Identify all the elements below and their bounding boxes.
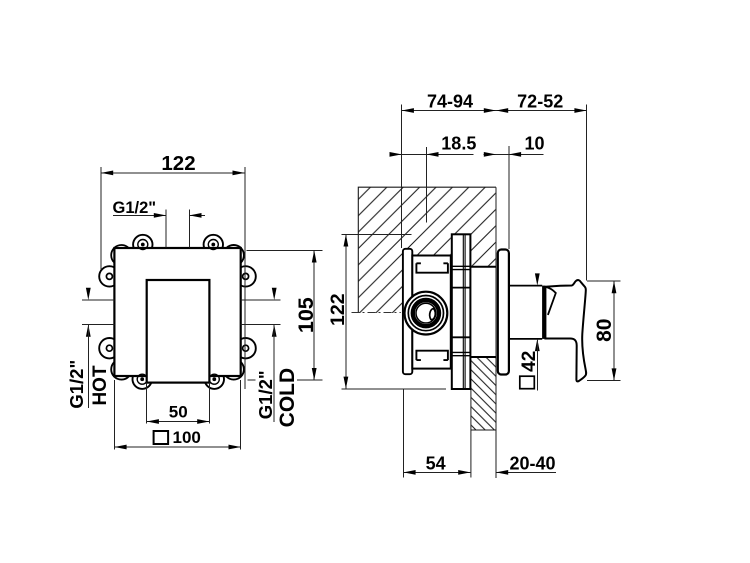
dimension 122 (top of front view) (101, 152, 245, 389)
wall opening top edge (470, 266, 496, 268)
svg-text:18.5: 18.5 (441, 133, 476, 153)
dimension 54 (403, 389, 470, 478)
label G1/2 HOT (left port) (66, 288, 111, 409)
svg-text:42: 42 (519, 351, 540, 372)
handle stem lines plate to collar (509, 285, 542, 287)
svg-text:HOT: HOT (90, 365, 111, 406)
screw top-left ring and dot (138, 240, 148, 250)
cartridge thick ring (413, 300, 439, 326)
svg-text:105: 105 (294, 297, 318, 333)
svg-text:50: 50 (169, 403, 188, 422)
horizontal centerline (dash-dot) (352, 312, 401, 314)
svg-text:72-52: 72-52 (517, 92, 563, 112)
cartridge crescent detail (430, 309, 436, 320)
cartridge stem lines across bridge (452, 287, 471, 289)
svg-text:80: 80 (593, 319, 616, 342)
svg-text:G1/2": G1/2" (66, 360, 87, 409)
corner lug bottom-left (111, 359, 131, 379)
handle lever body (545, 280, 586, 381)
side lug left-upper (99, 266, 119, 286)
dimension 80 (handle height) (587, 281, 620, 381)
finished wall face line (495, 187, 497, 478)
handle hub cone lines (546, 287, 556, 315)
screw lug bottom-right outer (205, 370, 224, 389)
svg-text:74-94: 74-94 (427, 92, 473, 112)
bridge inner lines (462, 234, 464, 389)
wall plate front face (114, 248, 240, 376)
svg-text:10: 10 (525, 134, 545, 154)
left port extension ticks (82, 300, 280, 325)
cartridge outer circle (405, 292, 448, 335)
dimension 50 (recess width) (147, 383, 210, 424)
screw lug top-left outer (133, 235, 152, 254)
top clamp bracket (416, 263, 448, 272)
handle collar bar (542, 286, 545, 339)
svg-text:20-40: 20-40 (509, 454, 555, 474)
dimension 74-94 (402, 92, 587, 281)
wall hatch upper block (358, 187, 496, 313)
corner lug top-left (111, 245, 131, 265)
wall opening bottom edge (470, 356, 496, 358)
valve body left rail (403, 249, 412, 374)
dimension 105 (right of front view) (247, 250, 323, 380)
side lug left-lower (99, 338, 119, 358)
side lug right-upper (235, 266, 255, 286)
mounting bridge plate (452, 234, 471, 389)
dimension 72-52 (496, 92, 587, 113)
vertical centerline ticks above/below cartridge (425, 258, 427, 284)
bridge division lines (452, 266, 471, 355)
side lug right-lower (235, 338, 255, 358)
dimension square-100 (plate size) (114, 380, 240, 450)
svg-text:122: 122 (327, 293, 349, 326)
cover escutcheon plate (section) (498, 250, 509, 375)
corner lug top-right (224, 245, 244, 265)
wall lower broken edge left (470, 389, 472, 478)
screw lug bottom-left outer (133, 370, 152, 389)
cartridge inner circle (416, 303, 436, 323)
bottom clamp bracket (416, 351, 448, 360)
svg-text:G1/2": G1/2" (113, 199, 157, 217)
label G1/2 COLD (right port) (255, 288, 299, 428)
wall hatch lower block (471, 357, 496, 430)
screw bottom-left ring and dot (137, 374, 147, 384)
svg-text:122: 122 (161, 152, 195, 175)
screw lug top-right outer (204, 235, 223, 254)
dimension 18.5 (390, 133, 477, 222)
recess opening rectangle (147, 280, 210, 383)
wall upper outline (358, 187, 496, 313)
wall lower hatch bottom edge (471, 429, 496, 431)
svg-text:54: 54 (426, 453, 446, 473)
svg-text:100: 100 (173, 428, 201, 447)
cartridge ring 2 (408, 296, 443, 331)
dimension 20-40 (496, 454, 556, 475)
svg-text:G1/2": G1/2" (255, 370, 276, 419)
screw top-right ring and dot (208, 240, 218, 250)
valve body main block (412, 256, 451, 369)
screw bottom-right ring and dot (209, 374, 219, 384)
svg-text:COLD: COLD (276, 368, 299, 428)
corner lug bottom-right (224, 359, 244, 379)
dimension square-42 (stem) (519, 273, 540, 390)
dimension 122 (section, bridge height) (327, 234, 446, 388)
dimension 10 (484, 134, 545, 250)
right port extension ticks (241, 299, 281, 301)
dimension G1/2" (top ports) (113, 199, 206, 247)
